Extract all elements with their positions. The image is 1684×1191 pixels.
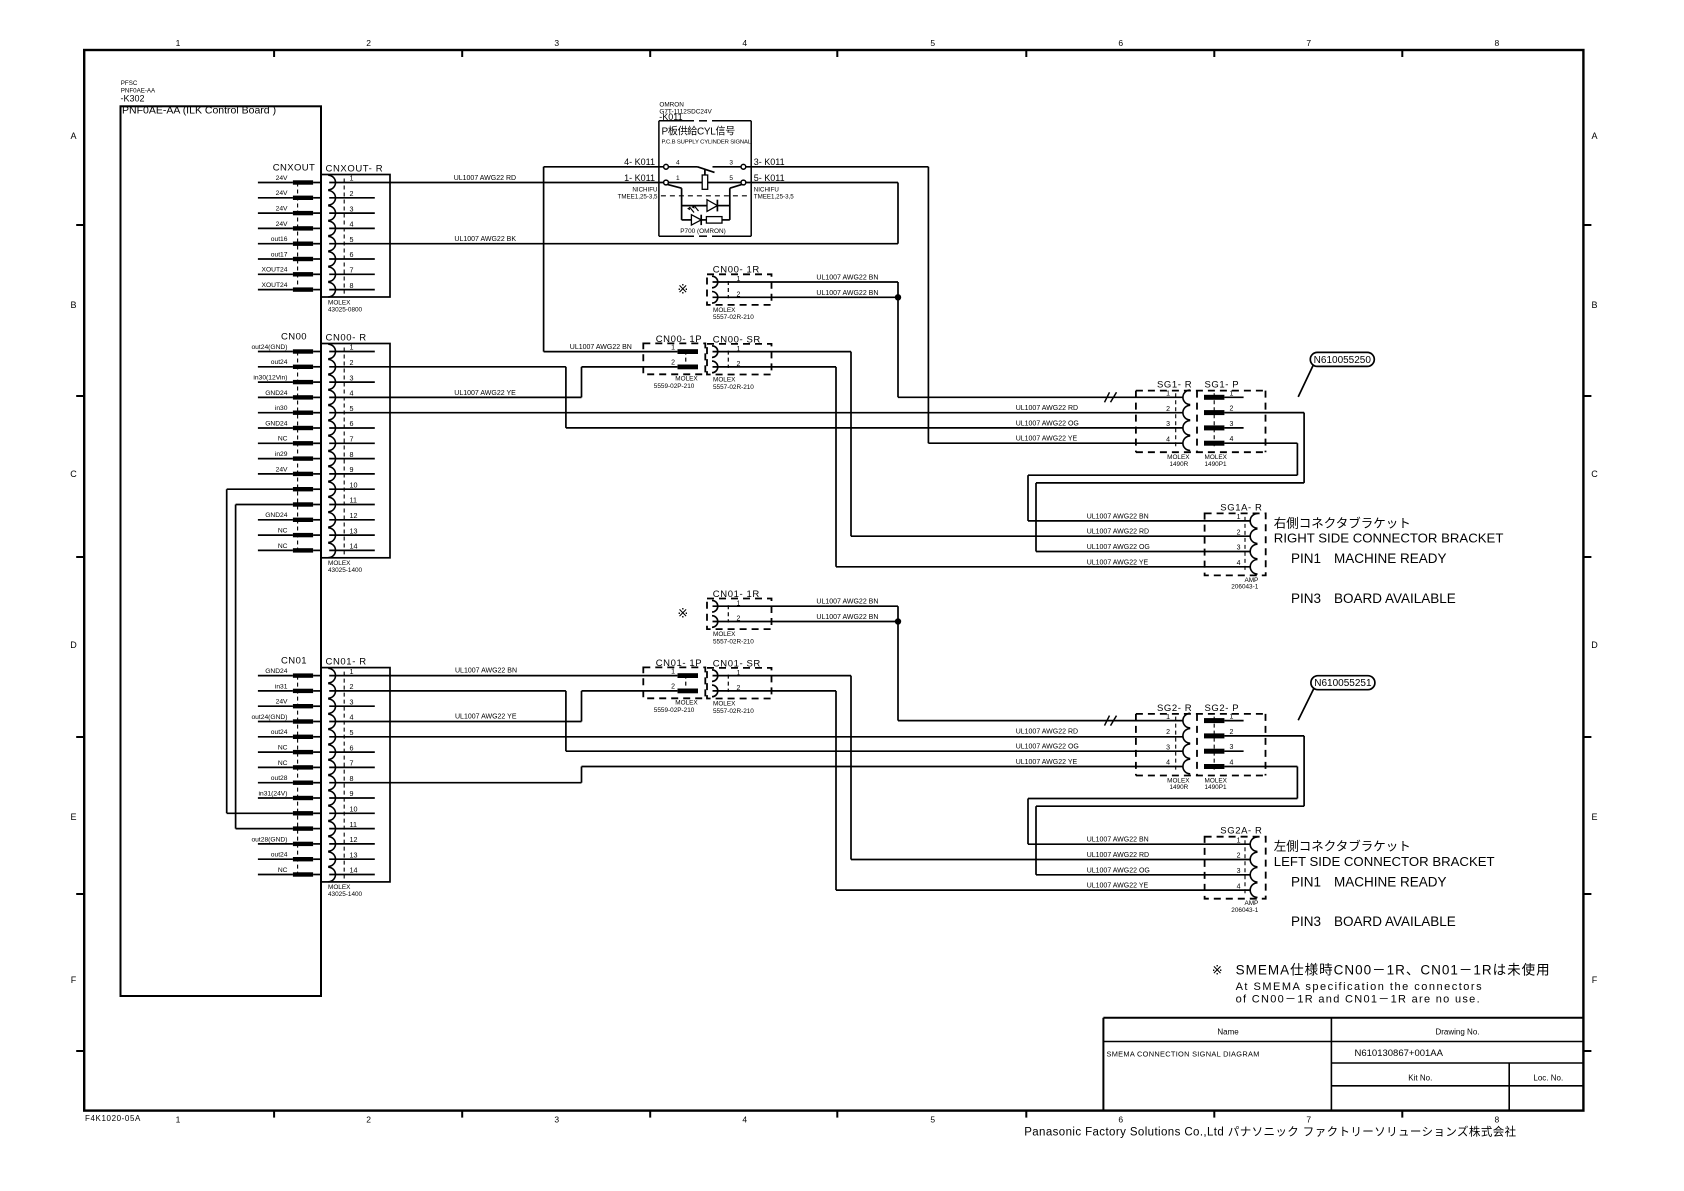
svg-text:N610130867+001AA: N610130867+001AA (1355, 1048, 1444, 1059)
svg-text:MOLEX: MOLEX (713, 307, 736, 314)
svg-text:out24(GND): out24(GND) (251, 714, 287, 721)
svg-text:2: 2 (737, 361, 741, 368)
svg-text:UL1007 AWG22 YE: UL1007 AWG22 YE (1016, 759, 1078, 766)
svg-text:1: 1 (737, 276, 741, 283)
svg-text:6: 6 (350, 250, 354, 259)
svg-text:※: ※ (677, 282, 688, 297)
svg-text:PIN1: PIN1 (1291, 551, 1321, 566)
svg-text:1: 1 (350, 174, 354, 183)
svg-text:UL1007 AWG22 RD: UL1007 AWG22 RD (454, 175, 516, 182)
svg-text:3: 3 (729, 159, 733, 166)
svg-text:Drawing No.: Drawing No. (1435, 1027, 1479, 1036)
svg-text:Panasonic Factory Solutions Co: Panasonic Factory Solutions Co.,Ltd パナソニ… (1024, 1124, 1516, 1138)
svg-text:CNXOUT- R: CNXOUT- R (326, 164, 384, 175)
svg-text:3: 3 (350, 373, 354, 382)
svg-text:CN00- 1R: CN00- 1R (713, 265, 760, 276)
svg-text:N610055250: N610055250 (1314, 355, 1372, 366)
svg-text:UL1007 AWG22 YE: UL1007 AWG22 YE (1087, 559, 1149, 566)
svg-text:CN00: CN00 (281, 331, 307, 342)
svg-text:3: 3 (350, 697, 354, 706)
svg-text:in29: in29 (275, 451, 288, 458)
svg-text:2: 2 (1230, 729, 1234, 736)
svg-text:6: 6 (1118, 1115, 1123, 1125)
svg-text:-K302: -K302 (121, 94, 145, 104)
svg-text:7: 7 (350, 266, 354, 275)
svg-text:MOLEX: MOLEX (713, 701, 736, 708)
svg-text:206043-1: 206043-1 (1231, 907, 1258, 914)
svg-text:1490R: 1490R (1169, 784, 1188, 791)
svg-text:5557-02R-210: 5557-02R-210 (713, 314, 754, 321)
svg-text:P.C.B SUPPLY CYLINDER SIGNAL: P.C.B SUPPLY CYLINDER SIGNAL (662, 140, 752, 146)
svg-text:12: 12 (350, 511, 358, 520)
svg-text:MOLEX: MOLEX (713, 377, 736, 384)
svg-text:24V: 24V (276, 466, 288, 473)
svg-text:11: 11 (350, 820, 357, 829)
svg-text:5557-02R-210: 5557-02R-210 (713, 384, 754, 391)
svg-text:2: 2 (1230, 406, 1234, 413)
svg-text:1: 1 (176, 38, 181, 48)
svg-text:UL1007 AWG22 OG: UL1007 AWG22 OG (1016, 744, 1079, 751)
svg-text:8: 8 (350, 450, 354, 459)
svg-text:Kit No.: Kit No. (1408, 1074, 1432, 1083)
svg-text:UL1007 AWG22 RD: UL1007 AWG22 RD (1016, 728, 1078, 735)
svg-text:6: 6 (350, 743, 354, 752)
svg-text:24V: 24V (276, 221, 288, 228)
svg-text:2: 2 (350, 358, 354, 367)
svg-text:5557-02R-210: 5557-02R-210 (713, 638, 754, 645)
svg-text:2: 2 (1166, 729, 1170, 736)
svg-text:of CN00－1R and CN01－1R are: of CN00－1R and CN01－1R are no use. (1236, 994, 1481, 1006)
svg-text:1490R: 1490R (1169, 461, 1188, 468)
svg-text:F: F (71, 975, 77, 985)
svg-text:in31(24V): in31(24V) (259, 790, 288, 797)
svg-text:4: 4 (742, 1115, 747, 1125)
svg-text:4: 4 (1230, 436, 1234, 443)
svg-text:2: 2 (366, 38, 371, 48)
svg-text:2: 2 (366, 1115, 371, 1125)
svg-text:2: 2 (350, 682, 354, 691)
svg-text:C: C (1591, 469, 1598, 479)
svg-text:7: 7 (1306, 1115, 1311, 1125)
svg-text:out24: out24 (271, 729, 288, 736)
svg-text:5: 5 (350, 404, 354, 413)
svg-text:右側コネクタブラケット: 右側コネクタブラケット (1274, 515, 1411, 530)
svg-text:7: 7 (350, 759, 354, 768)
svg-text:UL1007 AWG22 BN: UL1007 AWG22 BN (455, 668, 517, 675)
svg-text:SG1A- R: SG1A- R (1220, 502, 1262, 513)
svg-text:4- K011: 4- K011 (624, 157, 655, 167)
svg-text:MOLEX: MOLEX (328, 299, 351, 306)
svg-text:4: 4 (350, 389, 354, 398)
svg-text:14: 14 (350, 542, 358, 551)
svg-text:5559-02P-210: 5559-02P-210 (654, 383, 695, 390)
svg-text:B: B (1591, 300, 1597, 310)
svg-text:1: 1 (1230, 714, 1234, 721)
svg-text:UL1007 AWG22 OG: UL1007 AWG22 OG (1016, 420, 1079, 427)
svg-text:UL1007 AWG22 YE: UL1007 AWG22 YE (1087, 883, 1149, 890)
svg-text:P板供給CYL信号: P板供給CYL信号 (662, 125, 736, 138)
svg-text:SMEMA CONNECTION SIGNAL DIAGRA: SMEMA CONNECTION SIGNAL DIAGRAM (1107, 1050, 1260, 1059)
svg-text:C: C (70, 469, 77, 479)
svg-text:XOUT24: XOUT24 (261, 267, 287, 274)
svg-text:2: 2 (350, 189, 354, 198)
svg-text:9: 9 (350, 465, 354, 474)
svg-text:UL1007 AWG22 BN: UL1007 AWG22 BN (816, 290, 878, 297)
svg-text:out24: out24 (271, 359, 288, 366)
svg-text:CN01- SR: CN01- SR (713, 658, 761, 669)
svg-text:1: 1 (671, 344, 675, 351)
svg-text:1: 1 (737, 600, 741, 607)
svg-text:左側コネクタブラケット: 左側コネクタブラケット (1274, 839, 1411, 854)
svg-text:※: ※ (677, 606, 688, 621)
svg-text:UL1007 AWG22 BN: UL1007 AWG22 BN (1087, 837, 1149, 844)
svg-text:MOLEX: MOLEX (675, 376, 698, 383)
svg-text:1: 1 (350, 667, 354, 676)
svg-text:10: 10 (350, 805, 358, 814)
svg-text:2: 2 (737, 616, 741, 623)
svg-text:UL1007 AWG22 OG: UL1007 AWG22 OG (1087, 544, 1150, 551)
svg-text:43025-1400: 43025-1400 (328, 567, 363, 574)
svg-text:1: 1 (176, 1115, 181, 1125)
svg-text:10: 10 (350, 480, 358, 489)
svg-text:in30(12Vin): in30(12Vin) (253, 375, 287, 382)
svg-text:5: 5 (729, 175, 733, 182)
svg-text:2: 2 (671, 684, 675, 691)
svg-text:UL1007 AWG22 RD: UL1007 AWG22 RD (1087, 529, 1149, 536)
svg-text:CNXOUT: CNXOUT (273, 162, 316, 173)
svg-text:SG2A- R: SG2A- R (1220, 826, 1262, 837)
svg-text:Loc. No.: Loc. No. (1533, 1074, 1563, 1083)
svg-text:1: 1 (676, 175, 680, 182)
svg-text:5: 5 (350, 235, 354, 244)
svg-text:1: 1 (737, 346, 741, 353)
svg-text:A: A (1591, 131, 1597, 141)
svg-text:2: 2 (671, 360, 675, 367)
svg-text:TMEE1,25-3,5: TMEE1,25-3,5 (618, 193, 658, 200)
svg-text:24V: 24V (276, 206, 288, 213)
svg-text:9: 9 (350, 789, 354, 798)
svg-text:4: 4 (676, 159, 680, 166)
svg-text:XOUT24: XOUT24 (261, 282, 287, 289)
svg-text:8: 8 (350, 774, 354, 783)
svg-text:GND24: GND24 (265, 420, 288, 427)
svg-text:MACHINE READY: MACHINE READY (1334, 551, 1447, 566)
svg-text:8: 8 (1495, 38, 1500, 48)
svg-text:in31: in31 (275, 683, 288, 690)
svg-text:RIGHT SIDE CONNECTOR BRACKET: RIGHT SIDE CONNECTOR BRACKET (1274, 531, 1504, 546)
svg-text:UL1007 AWG22 YE: UL1007 AWG22 YE (1016, 436, 1078, 443)
svg-text:5559-02P-210: 5559-02P-210 (654, 707, 695, 714)
svg-text:4: 4 (350, 220, 354, 229)
svg-text:BOARD AVAILABLE: BOARD AVAILABLE (1334, 591, 1456, 606)
svg-text:SG1- P: SG1- P (1205, 380, 1240, 391)
svg-text:1: 1 (1237, 514, 1241, 521)
svg-text:CN01: CN01 (281, 655, 307, 666)
svg-text:5: 5 (930, 1115, 935, 1125)
svg-text:4: 4 (350, 713, 354, 722)
svg-text:1490P1: 1490P1 (1205, 784, 1227, 791)
svg-text:CN00- R: CN00- R (326, 333, 367, 344)
svg-text:N610055251: N610055251 (1314, 678, 1372, 689)
svg-text:Name: Name (1217, 1027, 1239, 1036)
svg-text:2: 2 (737, 292, 741, 299)
svg-text:At SMEMA specification the: At SMEMA specification the connectors (1236, 981, 1483, 993)
svg-text:CN00- SR: CN00- SR (713, 334, 761, 345)
svg-text:GND24: GND24 (265, 668, 288, 675)
svg-text:out28(GND): out28(GND) (251, 836, 287, 843)
svg-text:PIN3: PIN3 (1291, 914, 1321, 929)
svg-text:E: E (1591, 812, 1597, 822)
svg-text:3: 3 (1230, 421, 1234, 428)
svg-text:D: D (1591, 640, 1598, 650)
svg-text:F4K1020-05A: F4K1020-05A (85, 1114, 141, 1123)
svg-text:1: 1 (350, 343, 354, 352)
svg-text:UL1007 AWG22 YE: UL1007 AWG22 YE (454, 390, 516, 397)
svg-text:8: 8 (1495, 1115, 1500, 1125)
svg-text:206043-1: 206043-1 (1231, 584, 1258, 591)
svg-text:MACHINE READY: MACHINE READY (1334, 875, 1447, 890)
svg-text:CN00- 1P: CN00- 1P (656, 334, 703, 345)
svg-text:UL1007 AWG22 RD: UL1007 AWG22 RD (1016, 405, 1078, 412)
svg-text:1490P1: 1490P1 (1205, 461, 1227, 468)
svg-text:2: 2 (1166, 406, 1170, 413)
svg-text:BOARD AVAILABLE: BOARD AVAILABLE (1334, 914, 1456, 929)
svg-text:6: 6 (350, 419, 354, 428)
svg-text:14: 14 (350, 866, 358, 875)
svg-text:NC: NC (278, 760, 288, 767)
svg-text:-K011: -K011 (659, 112, 682, 122)
svg-text:24V: 24V (276, 175, 288, 182)
svg-text:3: 3 (554, 38, 559, 48)
svg-text:3: 3 (1230, 744, 1234, 751)
svg-text:3: 3 (350, 204, 354, 213)
svg-text:UL1007 AWG22 BK: UL1007 AWG22 BK (454, 236, 516, 243)
svg-text:4: 4 (742, 38, 747, 48)
svg-text:MOLEX: MOLEX (328, 884, 351, 891)
svg-text:out24(GND): out24(GND) (251, 344, 287, 351)
svg-text:PNF0AE-AA (ILK Control Board ): PNF0AE-AA (ILK Control Board ) (122, 104, 276, 116)
svg-text:12: 12 (350, 835, 358, 844)
svg-text:B: B (70, 300, 76, 310)
svg-text:5: 5 (930, 38, 935, 48)
svg-text:F: F (1592, 975, 1598, 985)
svg-text:7: 7 (350, 435, 354, 444)
svg-text:PIN1: PIN1 (1291, 875, 1321, 890)
svg-text:out16: out16 (271, 236, 288, 243)
svg-text:8: 8 (350, 281, 354, 290)
svg-text:6: 6 (1118, 38, 1123, 48)
svg-text:43025-1400: 43025-1400 (328, 891, 363, 898)
svg-text:GND24: GND24 (265, 512, 288, 519)
svg-text:UL1007 AWG22 BN: UL1007 AWG22 BN (816, 614, 878, 621)
svg-text:UL1007 AWG22 RD: UL1007 AWG22 RD (1087, 852, 1149, 859)
svg-text:5: 5 (350, 728, 354, 737)
svg-text:MOLEX: MOLEX (328, 560, 351, 567)
svg-text:NC: NC (278, 436, 288, 443)
svg-text:out17: out17 (271, 251, 288, 258)
svg-text:5- K011: 5- K011 (754, 173, 785, 183)
svg-text:out24: out24 (271, 852, 288, 859)
svg-text:SG2- P: SG2- P (1205, 703, 1240, 714)
svg-text:TMEE1,25-3,5: TMEE1,25-3,5 (754, 193, 794, 200)
svg-text:SG1- R: SG1- R (1157, 380, 1192, 391)
svg-text:MOLEX: MOLEX (675, 700, 698, 707)
svg-text:UL1007 AWG22 BN: UL1007 AWG22 BN (816, 599, 878, 606)
svg-text:A: A (70, 131, 76, 141)
svg-text:CN01- 1P: CN01- 1P (656, 658, 703, 669)
svg-text:NC: NC (278, 543, 288, 550)
svg-text:MOLEX: MOLEX (713, 631, 736, 638)
svg-text:in30: in30 (275, 405, 288, 412)
svg-text:PIN3: PIN3 (1291, 591, 1321, 606)
svg-text:PFSC: PFSC (121, 80, 138, 87)
svg-text:NC: NC (278, 745, 288, 752)
svg-text:UL1007 AWG22 YE: UL1007 AWG22 YE (455, 714, 517, 721)
svg-text:11: 11 (350, 496, 357, 505)
svg-text:UL1007 AWG22 BN: UL1007 AWG22 BN (570, 344, 632, 351)
svg-text:13: 13 (350, 850, 358, 859)
svg-text:24V: 24V (276, 190, 288, 197)
svg-text:1: 1 (737, 670, 741, 677)
svg-text:1: 1 (671, 668, 675, 675)
svg-text:7: 7 (1306, 38, 1311, 48)
svg-text:out28: out28 (271, 775, 288, 782)
svg-text:5557-02R-210: 5557-02R-210 (713, 708, 754, 715)
svg-text:OMRON: OMRON (659, 102, 684, 109)
svg-text:43025-0800: 43025-0800 (328, 306, 363, 313)
svg-text:UL1007 AWG22 OG: UL1007 AWG22 OG (1087, 867, 1150, 874)
svg-text:NC: NC (278, 528, 288, 535)
svg-text:CN01- R: CN01- R (326, 657, 367, 668)
svg-text:4: 4 (1230, 760, 1234, 767)
svg-text:SG2- R: SG2- R (1157, 703, 1192, 714)
svg-text:E: E (70, 812, 76, 822)
svg-text:13: 13 (350, 526, 358, 535)
svg-text:24V: 24V (276, 699, 288, 706)
svg-text:D: D (70, 640, 77, 650)
svg-text:UL1007 AWG22 BN: UL1007 AWG22 BN (1087, 513, 1149, 520)
svg-text:3- K011: 3- K011 (754, 157, 785, 167)
svg-text:2: 2 (737, 685, 741, 692)
svg-text:UL1007 AWG22 BN: UL1007 AWG22 BN (816, 275, 878, 282)
svg-text:1- K011: 1- K011 (624, 173, 655, 183)
svg-text:3: 3 (554, 1115, 559, 1125)
svg-text:CN01- 1R: CN01- 1R (713, 589, 760, 600)
svg-text:GND24: GND24 (265, 390, 288, 397)
svg-text:SMEMA仕様時CN00－1R、CN01－1Rは未使用: SMEMA仕様時CN00－1R、CN01－1Rは未使用 (1236, 962, 1551, 978)
svg-text:※: ※ (1212, 963, 1223, 978)
svg-text:1: 1 (1230, 390, 1234, 397)
svg-text:P700 (OMRON): P700 (OMRON) (680, 228, 725, 235)
svg-text:LEFT SIDE CONNECTOR BRACKET: LEFT SIDE CONNECTOR BRACKET (1274, 854, 1495, 869)
svg-text:NC: NC (278, 867, 288, 874)
